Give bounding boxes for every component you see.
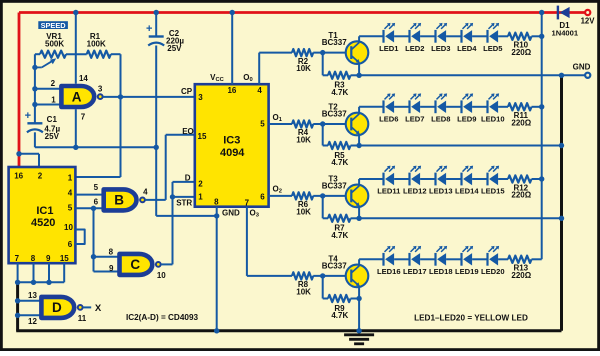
wire to series resistor bbox=[498, 106, 508, 108]
junction pins bus 7 bbox=[15, 280, 20, 285]
svg-text:LED1: LED1 bbox=[379, 44, 399, 53]
svg-text:6: 6 bbox=[68, 240, 73, 249]
label O1 bbox=[273, 113, 283, 123]
svg-text:LED4: LED4 bbox=[457, 44, 477, 53]
wire emitter T4 bbox=[358, 287, 360, 299]
wire IC1 pin 7 down bbox=[17, 263, 19, 282]
LED LED6 bbox=[384, 93, 396, 113]
svg-text:GND: GND bbox=[573, 62, 591, 71]
wire led link bbox=[394, 258, 409, 260]
svg-text:10: 10 bbox=[64, 223, 73, 232]
LED LED19 bbox=[462, 246, 474, 266]
wire IC1 pin 8 down bbox=[33, 263, 35, 282]
pin 10 label IC1 bbox=[64, 223, 73, 232]
label yellow LED note bbox=[414, 314, 528, 323]
svg-text:4: 4 bbox=[68, 188, 73, 197]
svg-text:220Ω: 220Ω bbox=[511, 191, 531, 200]
wire +V rail right bbox=[541, 13, 543, 260]
diode D1 1N4001 bbox=[558, 6, 570, 20]
LED LED12 bbox=[410, 166, 422, 186]
label LED7 bbox=[405, 114, 424, 123]
junction STR tap bbox=[170, 194, 175, 199]
svg-text:25V: 25V bbox=[167, 44, 182, 53]
junction VR1 wiper bbox=[32, 65, 37, 70]
junction pins bus 8 bbox=[31, 280, 36, 285]
wire IC1 pins 10-6 bracket bbox=[75, 230, 84, 245]
wire R1 to oscillator output bbox=[120, 54, 122, 97]
junction red bus / C2 bbox=[154, 10, 159, 15]
LED LED15 bbox=[488, 166, 500, 186]
svg-text:+: + bbox=[25, 110, 31, 122]
label O2 bbox=[273, 185, 282, 195]
svg-text:220Ω: 220Ω bbox=[511, 48, 531, 57]
svg-text:10K: 10K bbox=[296, 135, 311, 144]
IC IC3 4094 body bbox=[195, 84, 269, 207]
svg-text:LED7: LED7 bbox=[405, 114, 424, 123]
resistor R1 bbox=[87, 51, 121, 58]
label C2 bbox=[166, 29, 184, 53]
node bubble gate A output bbox=[98, 94, 103, 99]
pin 12 label gate D bbox=[28, 317, 37, 326]
label LED5 bbox=[483, 44, 503, 53]
label T3 bbox=[322, 174, 347, 190]
op-amp gate D (NAND IC2d) bbox=[41, 297, 74, 318]
svg-text:10K: 10K bbox=[296, 207, 311, 216]
junction B input 6 column bbox=[91, 206, 96, 211]
wire base divider T3 bbox=[323, 196, 328, 218]
svg-text:8: 8 bbox=[109, 247, 114, 256]
svg-text:6: 6 bbox=[94, 197, 99, 206]
wire O1 from IC3 pin 5 bbox=[269, 123, 292, 125]
svg-text:C: C bbox=[130, 257, 140, 272]
resistor R9 4.7K bbox=[328, 295, 359, 302]
label LED11 bbox=[377, 187, 401, 196]
label LED17 bbox=[403, 267, 427, 276]
wire A pin 14 Vcc bbox=[75, 13, 77, 84]
pin 10 label gate C bbox=[157, 271, 166, 280]
LED LED4 bbox=[462, 23, 474, 43]
wire collector T3 bbox=[359, 179, 383, 185]
pin 4 label gate B bbox=[143, 188, 148, 197]
junction IC3 ground at bus bbox=[214, 328, 219, 333]
wire emitter T1 to ground bus bbox=[359, 74, 561, 76]
svg-text:5: 5 bbox=[94, 183, 99, 192]
capacitor C2 bbox=[146, 23, 164, 46]
svg-text:5: 5 bbox=[68, 203, 73, 212]
svg-text:16: 16 bbox=[14, 171, 23, 180]
wire led link bbox=[420, 258, 435, 260]
resistor R8 10K bbox=[292, 272, 351, 279]
wire led link bbox=[420, 178, 435, 180]
junction pin 7 / ground rail bbox=[73, 145, 78, 150]
wire base divider T2 bbox=[323, 124, 328, 146]
svg-text:16: 16 bbox=[227, 86, 236, 95]
wire emitter T3 to ground bus bbox=[359, 217, 561, 219]
svg-text:LED18: LED18 bbox=[429, 267, 453, 276]
pin 11 label gate D bbox=[78, 314, 87, 323]
resistor R7 4.7K bbox=[328, 215, 359, 222]
label LED16 bbox=[377, 267, 401, 276]
svg-text:BC337: BC337 bbox=[322, 261, 347, 270]
svg-text:EO: EO bbox=[182, 127, 194, 136]
wire CP net (A output to IC3 pin 3) bbox=[103, 96, 195, 98]
wire O3 from IC3 pin 7 bbox=[247, 207, 292, 276]
wire decode column bbox=[93, 208, 95, 271]
svg-text:C1: C1 bbox=[47, 115, 58, 124]
svg-text:13: 13 bbox=[28, 291, 37, 300]
wire led link bbox=[446, 35, 461, 37]
wire C output to STR and D bbox=[161, 182, 195, 265]
junction emitter T4 bbox=[356, 296, 361, 301]
wire led link bbox=[394, 178, 409, 180]
svg-text:100K: 100K bbox=[87, 39, 106, 48]
wire IC1 pin 4 to B input 5 bbox=[75, 194, 103, 196]
junction base T2 bbox=[320, 121, 325, 126]
label LED19 bbox=[455, 267, 479, 276]
svg-text:10K: 10K bbox=[296, 287, 311, 296]
wire collector T2 bbox=[359, 107, 383, 113]
pin 7 label gate A bbox=[81, 112, 86, 121]
svg-text:LED15: LED15 bbox=[481, 187, 505, 196]
svg-text:12: 12 bbox=[28, 317, 37, 326]
svg-text:9: 9 bbox=[46, 254, 51, 263]
wire B output to EO bbox=[145, 135, 195, 200]
label R5 bbox=[331, 151, 348, 167]
wire led link bbox=[446, 258, 461, 260]
junction base T4 bbox=[320, 273, 325, 278]
wire IC1 pin 15 down bbox=[63, 263, 65, 282]
variable resistor VR1 bbox=[35, 51, 87, 68]
pin 5 label gate B bbox=[94, 183, 99, 192]
IC IC1 4520 body bbox=[9, 167, 76, 263]
label VR1 bbox=[45, 32, 64, 48]
label GND right bbox=[573, 62, 591, 71]
junction C input 8 bbox=[91, 254, 96, 259]
svg-text:10: 10 bbox=[157, 271, 166, 280]
wire emitter T1 bbox=[358, 64, 360, 76]
wire IC1 bottom pins bus bbox=[18, 281, 65, 283]
svg-text:6: 6 bbox=[260, 193, 265, 202]
node bubble gate D output bbox=[78, 305, 83, 310]
svg-text:IC2(A-D) = CD4093: IC2(A-D) = CD4093 bbox=[126, 313, 199, 322]
junction red bus / pin 14 bbox=[73, 10, 78, 15]
svg-text:LED1–LED20 = YELLOW LED: LED1–LED20 = YELLOW LED bbox=[414, 314, 528, 323]
junction red bus / +V rail bbox=[539, 10, 544, 15]
svg-text:7: 7 bbox=[15, 254, 20, 263]
resistor R11 220 bbox=[508, 103, 542, 110]
wire led link bbox=[472, 178, 487, 180]
svg-text:BC337: BC337 bbox=[322, 110, 347, 119]
svg-text:15: 15 bbox=[60, 254, 69, 263]
svg-text:SPEED: SPEED bbox=[41, 21, 67, 30]
junction ground bus row 2 bbox=[559, 143, 564, 148]
wire D input 12 bbox=[18, 314, 42, 316]
LED LED18 bbox=[436, 246, 448, 266]
pin 4 label IC3 bbox=[257, 86, 262, 95]
node bubble gate C output bbox=[156, 262, 161, 267]
LED LED20 bbox=[488, 246, 500, 266]
label LED6 bbox=[379, 114, 398, 123]
svg-text:1N4001: 1N4001 bbox=[551, 28, 578, 37]
wire led link bbox=[420, 35, 435, 37]
junction T4 emitter at bus bbox=[356, 328, 361, 333]
wire +V red vertical to IC1 pin 16 bbox=[18, 13, 21, 168]
wire led link bbox=[446, 106, 461, 108]
label R6 bbox=[296, 200, 311, 216]
svg-text:25V: 25V bbox=[45, 132, 60, 141]
svg-text:2: 2 bbox=[198, 179, 203, 188]
pin 3 label IC3 bbox=[198, 93, 203, 102]
label D1 bbox=[551, 21, 578, 37]
wire IC3 pin 8 to ground bus bbox=[216, 207, 218, 331]
label LED20 bbox=[481, 267, 505, 276]
wire to series resistor bbox=[498, 178, 508, 180]
LED LED14 bbox=[462, 166, 474, 186]
label R3 bbox=[331, 81, 348, 97]
wire emitter T3 bbox=[358, 207, 360, 218]
label LED3 bbox=[431, 44, 450, 53]
label R4 bbox=[296, 128, 311, 144]
label LED9 bbox=[457, 114, 476, 123]
op-amp gate C (NAND IC2c) bbox=[120, 254, 153, 275]
svg-text:3: 3 bbox=[198, 93, 203, 102]
resistor R2 10K bbox=[292, 49, 351, 56]
wire A-input left vertical bbox=[34, 54, 36, 123]
transistor T2 BC337 bbox=[346, 113, 369, 136]
wire C input 9 bbox=[94, 271, 120, 273]
label T1 bbox=[322, 31, 347, 47]
label R2 bbox=[296, 57, 311, 73]
pin 3 label gate A bbox=[98, 85, 103, 94]
wire O2 from IC3 pin 6 bbox=[269, 195, 292, 197]
junction IC3 GND column bbox=[214, 213, 219, 218]
label R10 bbox=[511, 41, 531, 57]
svg-text:12V: 12V bbox=[581, 17, 596, 26]
svg-text:A: A bbox=[72, 90, 82, 105]
LED LED3 bbox=[436, 23, 448, 43]
wire GND terminal bbox=[562, 74, 585, 76]
svg-text:LED3: LED3 bbox=[431, 44, 450, 53]
pin 13 label gate D bbox=[28, 291, 37, 300]
svg-text:4.7K: 4.7K bbox=[331, 88, 348, 97]
svg-text:LED17: LED17 bbox=[403, 267, 427, 276]
svg-text:IC1: IC1 bbox=[36, 205, 53, 217]
node GND terminal bbox=[585, 73, 590, 78]
svg-text:D: D bbox=[185, 173, 191, 182]
label 12V bbox=[581, 17, 596, 26]
wire emitter T2 to ground bus bbox=[359, 145, 561, 147]
wire led link bbox=[446, 178, 461, 180]
label IC2 = CD4093 bbox=[126, 313, 199, 322]
svg-text:4520: 4520 bbox=[31, 217, 55, 229]
svg-text:2: 2 bbox=[38, 171, 43, 180]
svg-text:5: 5 bbox=[260, 119, 265, 128]
wire O0 from IC3 pin 4 bbox=[259, 53, 292, 85]
node 12V terminal bbox=[585, 10, 590, 15]
pin 8 label IC3 bbox=[214, 197, 219, 206]
LED LED17 bbox=[410, 246, 422, 266]
svg-text:B: B bbox=[114, 193, 124, 208]
wire led link bbox=[394, 106, 409, 108]
svg-text:4.7K: 4.7K bbox=[331, 158, 348, 167]
svg-text:X: X bbox=[95, 303, 102, 314]
LED LED5 bbox=[488, 23, 500, 43]
label R9 bbox=[331, 304, 348, 320]
label LED2 bbox=[405, 44, 424, 53]
pin 1 label IC1 bbox=[68, 174, 73, 183]
wire ground bus bottom (black) bbox=[16, 329, 561, 332]
junction base T1 bbox=[320, 50, 325, 55]
label D bbox=[185, 173, 191, 182]
label STR bbox=[176, 198, 192, 207]
pin 6 label gate B bbox=[94, 197, 99, 206]
pin 6 label IC3 bbox=[260, 193, 265, 202]
node bubble gate B output bbox=[140, 198, 145, 203]
wire led link bbox=[394, 35, 409, 37]
junction A input 1 bbox=[32, 102, 37, 107]
junction ground bus row 1 bbox=[559, 73, 564, 78]
junction D input 12 bbox=[15, 313, 20, 318]
svg-text:4094: 4094 bbox=[220, 147, 245, 159]
pin 7 label IC3 bbox=[245, 198, 250, 207]
label T2 bbox=[322, 103, 347, 119]
pin 8 label gate C bbox=[109, 247, 114, 256]
pin 6 label IC1 bbox=[68, 240, 73, 249]
resistor R3 4.7K bbox=[328, 72, 359, 79]
pin 9 label gate C bbox=[109, 264, 114, 273]
wire IC1 pin 5 to B input 6 bbox=[75, 207, 103, 209]
capacitor C1 bbox=[25, 110, 43, 133]
transistor T3 BC337 bbox=[346, 185, 369, 208]
junction ground bus row 3 bbox=[559, 216, 564, 221]
junction A input 2 bbox=[32, 86, 37, 91]
svg-text:BC337: BC337 bbox=[322, 181, 347, 190]
wire +V red bus horizontal bbox=[19, 11, 585, 14]
svg-text:3: 3 bbox=[98, 85, 103, 94]
svg-text:D: D bbox=[52, 300, 62, 315]
wire emitter T2 bbox=[358, 135, 360, 146]
svg-text:GND: GND bbox=[222, 209, 240, 218]
junction +V rail row 3 bbox=[539, 176, 544, 181]
svg-text:LED14: LED14 bbox=[455, 187, 479, 196]
junction CP / clock column bbox=[118, 94, 123, 99]
svg-text:4.7K: 4.7K bbox=[331, 311, 348, 320]
wire VR1-R1 top bbox=[35, 53, 40, 55]
svg-text:8: 8 bbox=[214, 197, 219, 206]
label CP bbox=[181, 87, 193, 96]
wire C input 8 bbox=[94, 256, 120, 258]
wire led link bbox=[420, 106, 435, 108]
pin 5 label IC3 bbox=[260, 119, 265, 128]
junction +V rail row 2 bbox=[539, 104, 544, 109]
resistor R10 220 bbox=[508, 33, 542, 40]
pin 1 label gate A bbox=[51, 96, 56, 105]
wire to series resistor bbox=[498, 258, 508, 260]
wire ground bus right vertical (black) bbox=[560, 75, 563, 330]
svg-text:11: 11 bbox=[78, 314, 87, 323]
label LED10 bbox=[481, 114, 505, 123]
wire D output stub bbox=[83, 306, 92, 308]
svg-text:2: 2 bbox=[51, 79, 56, 88]
svg-text:+: + bbox=[146, 23, 152, 35]
svg-text:LED5: LED5 bbox=[483, 44, 503, 53]
wire C1 negative to ground rail bbox=[35, 132, 156, 147]
wire collector T4 bbox=[359, 259, 383, 265]
svg-text:1: 1 bbox=[198, 193, 203, 202]
label LED15 bbox=[481, 187, 505, 196]
pin 2 label gate A bbox=[51, 79, 56, 88]
svg-text:8: 8 bbox=[31, 254, 36, 263]
wire C2 column from +V bbox=[155, 13, 157, 37]
junction +V rail row 1 bbox=[539, 34, 544, 39]
wire base divider T4 bbox=[323, 276, 328, 299]
wire A input 1 bbox=[35, 104, 62, 106]
svg-text:220Ω: 220Ω bbox=[511, 118, 531, 127]
pin 9 label IC1 bbox=[46, 254, 51, 263]
pin 8 label IC1 bbox=[31, 254, 36, 263]
label R12 bbox=[511, 183, 531, 199]
svg-text:4.7K: 4.7K bbox=[331, 231, 348, 240]
LED LED1 bbox=[384, 23, 396, 43]
label R13 bbox=[511, 264, 531, 280]
wire base divider T1 bbox=[323, 53, 328, 76]
label SPEED box bbox=[38, 21, 68, 30]
svg-text:500K: 500K bbox=[45, 39, 64, 48]
wire collector T1 bbox=[359, 36, 383, 41]
wire IC1 pin 9 down bbox=[48, 263, 50, 282]
svg-text:LED13: LED13 bbox=[429, 187, 453, 196]
label LED12 bbox=[403, 187, 427, 196]
op-amp gate A (NAND IC2a) bbox=[61, 86, 94, 107]
label EO bbox=[182, 127, 194, 136]
svg-text:IC3: IC3 bbox=[223, 135, 240, 147]
svg-text:1: 1 bbox=[51, 96, 56, 105]
pin 5 label IC1 bbox=[68, 203, 73, 212]
svg-text:LED8: LED8 bbox=[431, 114, 450, 123]
resistor R12 220 bbox=[508, 175, 542, 182]
LED LED10 bbox=[488, 93, 500, 113]
svg-text:LED6: LED6 bbox=[379, 114, 398, 123]
pin 4 label IC1 bbox=[68, 188, 73, 197]
svg-text:LED20: LED20 bbox=[481, 267, 505, 276]
junction red vertical / pin 2 bbox=[16, 151, 21, 156]
label R7 bbox=[331, 224, 348, 240]
svg-text:CP: CP bbox=[181, 87, 193, 96]
wire ground bus left vertical (black) bbox=[16, 281, 19, 331]
svg-text:4: 4 bbox=[143, 188, 148, 197]
LED LED7 bbox=[410, 93, 422, 113]
svg-text:15: 15 bbox=[198, 132, 207, 141]
svg-text:1: 1 bbox=[68, 174, 73, 183]
junction emitter T3 bbox=[356, 216, 361, 221]
LED LED13 bbox=[436, 166, 448, 186]
label R11 bbox=[511, 111, 531, 127]
label GND IC3 bbox=[222, 209, 240, 218]
wire A pin 7 ground bbox=[75, 109, 77, 147]
ground symbol bbox=[344, 335, 374, 344]
label Vcc bbox=[210, 73, 225, 83]
resistor R6 10K bbox=[292, 192, 351, 199]
resistor R5 4.7K bbox=[328, 142, 359, 149]
transistor T1 BC337 bbox=[346, 41, 369, 64]
LED LED16 bbox=[384, 246, 396, 266]
wire emitter T4 to ground bbox=[358, 299, 360, 331]
svg-text:7: 7 bbox=[245, 198, 250, 207]
node X bbox=[95, 303, 102, 314]
svg-text:220Ω: 220Ω bbox=[511, 271, 531, 280]
svg-text:9: 9 bbox=[109, 264, 114, 273]
pin 1 label IC3 bbox=[198, 193, 203, 202]
